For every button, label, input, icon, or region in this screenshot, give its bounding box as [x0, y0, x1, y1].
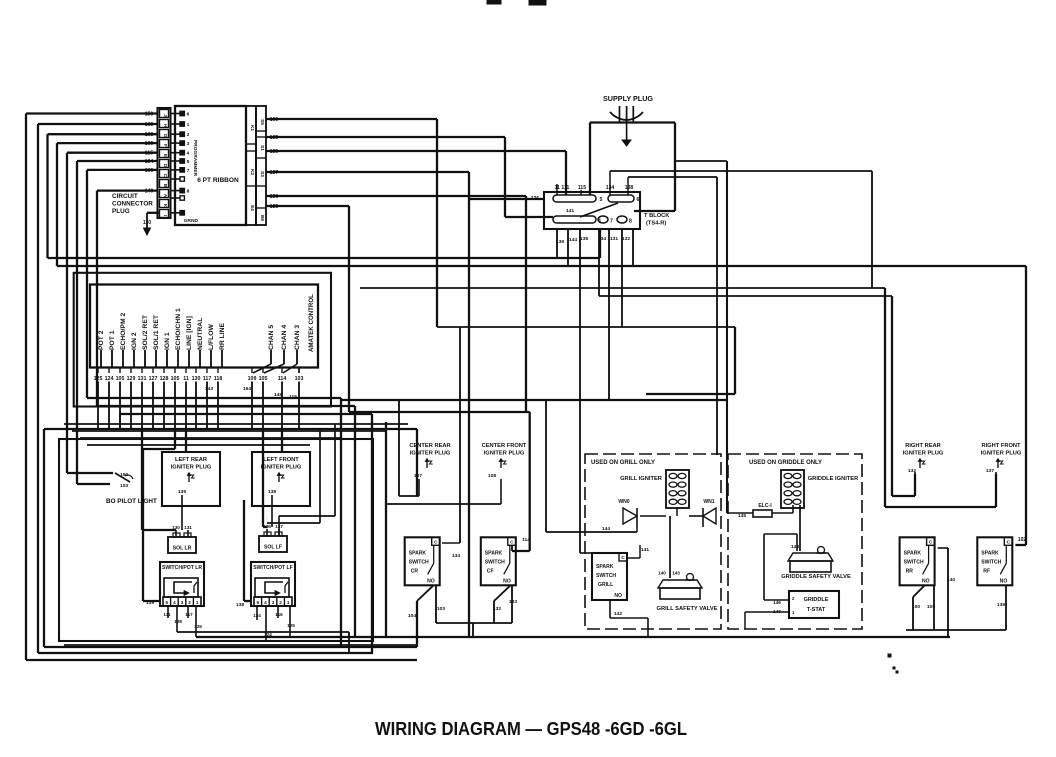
svg-text:115: 115 [145, 151, 153, 157]
svg-text:104: 104 [145, 159, 154, 165]
svg-text:RR LINE: RR LINE [219, 322, 226, 350]
svg-text:103: 103 [120, 483, 128, 489]
svg-text:103: 103 [295, 376, 304, 382]
svg-text:E: E [162, 154, 168, 157]
svg-text:148: 148 [791, 544, 799, 550]
svg-text:C: C [621, 555, 625, 560]
svg-text:T BLOCK: T BLOCK [644, 213, 670, 219]
svg-text:1: 1 [196, 600, 199, 605]
svg-text:IGNITER PLUG: IGNITER PLUG [903, 451, 944, 457]
svg-text:140: 140 [658, 571, 666, 576]
svg-text:C: C [162, 174, 168, 178]
svg-text:129: 129 [127, 376, 136, 382]
svg-text:IGNITER PLUG: IGNITER PLUG [981, 451, 1022, 457]
svg-text:NO: NO [922, 578, 930, 584]
svg-text:5: 5 [257, 600, 260, 605]
svg-text:RR: RR [906, 568, 914, 574]
svg-text:114: 114 [522, 537, 530, 543]
svg-text:CENTER FRONT: CENTER FRONT [482, 443, 527, 449]
svg-text:3: 3 [187, 141, 190, 147]
svg-text:130: 130 [192, 376, 201, 382]
svg-text:C: C [510, 539, 514, 544]
svg-text:ECHO/PM 2: ECHO/PM 2 [120, 313, 127, 350]
svg-text:104: 104 [408, 613, 416, 619]
svg-text:138: 138 [625, 185, 634, 191]
svg-text:C: C [1007, 539, 1011, 544]
svg-text:7: 7 [187, 168, 190, 174]
svg-text:CHAN 3: CHAN 3 [294, 325, 301, 350]
svg-text:4: 4 [187, 151, 190, 157]
svg-text:I: I [162, 215, 168, 216]
svg-text:141: 141 [566, 208, 574, 214]
svg-text:150: 150 [145, 112, 154, 118]
svg-text:NO: NO [1000, 578, 1008, 584]
svg-text:136: 136 [531, 196, 540, 202]
svg-text:6: 6 [187, 112, 190, 118]
svg-text:ECHO/CHN 1: ECHO/CHN 1 [175, 308, 182, 350]
svg-text:141: 141 [641, 547, 649, 553]
svg-text:106: 106 [145, 168, 154, 174]
svg-text:142: 142 [614, 611, 622, 617]
svg-text:B6: B6 [260, 215, 265, 221]
svg-text:RIGHT FRONT: RIGHT FRONT [981, 443, 1021, 449]
svg-text:SPARK: SPARK [596, 564, 614, 570]
svg-text:WIRING DIAGRAM — GPS48 -6GD -6: WIRING DIAGRAM — GPS48 -6GD -6GL [375, 719, 687, 739]
svg-text:CF: CF [487, 568, 494, 574]
svg-text:IGNITER PLUG: IGNITER PLUG [484, 451, 525, 457]
svg-text:GRIDDLE IGNITER: GRIDDLE IGNITER [808, 476, 859, 482]
svg-text:3: 3 [272, 600, 275, 605]
svg-text:D: D [162, 164, 168, 168]
svg-text:5: 5 [600, 197, 603, 203]
svg-text:4: 4 [598, 219, 601, 225]
svg-text:132: 132 [622, 236, 630, 242]
svg-text:CHAN 4: CHAN 4 [281, 325, 288, 350]
svg-text:134: 134 [452, 553, 460, 559]
svg-text:131: 131 [184, 525, 192, 530]
svg-text:NEUTRAL: NEUTRAL [197, 318, 204, 350]
svg-text:145: 145 [738, 513, 746, 519]
svg-text:107: 107 [414, 473, 422, 479]
svg-text:WN1: WN1 [703, 499, 714, 505]
svg-text:114: 114 [278, 376, 287, 382]
svg-text:124: 124 [105, 376, 114, 382]
svg-text:F: F [162, 144, 168, 147]
svg-text:NO: NO [614, 593, 622, 599]
svg-text:K: K [162, 204, 168, 208]
svg-text:138: 138 [580, 236, 588, 242]
svg-text:139: 139 [178, 489, 186, 495]
svg-text:SOL/1 RET: SOL/1 RET [153, 314, 160, 350]
svg-text:AMATEK CONTROL: AMATEK CONTROL [308, 294, 315, 352]
svg-text:116: 116 [275, 612, 283, 617]
svg-text:J: J [162, 114, 168, 117]
svg-text:146: 146 [773, 600, 781, 605]
svg-text:4: 4 [264, 600, 267, 605]
svg-text:SWITCH/POT LF: SWITCH/POT LF [253, 565, 293, 571]
svg-text:139: 139 [146, 600, 154, 606]
svg-text:IGN 1: IGN 1 [164, 332, 171, 350]
svg-text:S1: S1 [260, 145, 265, 151]
svg-text:GRIDDLE: GRIDDLE [804, 597, 829, 603]
svg-text:SWITCH: SWITCH [904, 559, 924, 565]
svg-text:5: 5 [166, 600, 169, 605]
svg-text:109: 109 [145, 141, 154, 147]
svg-text:2: 2 [188, 600, 191, 605]
svg-text:POT 2: POT 2 [98, 330, 105, 350]
svg-text:SWITCH: SWITCH [981, 559, 1001, 565]
svg-text:(TS4-R): (TS4-R) [646, 221, 666, 227]
svg-text:H: H [162, 124, 168, 128]
svg-text:USED ON GRILL ONLY: USED ON GRILL ONLY [591, 460, 655, 466]
svg-text:105: 105 [171, 376, 180, 382]
svg-text:2: 2 [279, 600, 282, 605]
svg-text:GRILL IGNITER: GRILL IGNITER [620, 476, 663, 482]
svg-text:109: 109 [248, 376, 257, 382]
svg-text:117: 117 [185, 612, 193, 617]
svg-text:125: 125 [287, 623, 295, 628]
svg-text:103: 103 [437, 606, 445, 612]
svg-text:B: B [162, 184, 168, 188]
svg-text:111: 111 [163, 612, 171, 617]
svg-text:110: 110 [143, 220, 151, 226]
svg-text:SOL LF: SOL LF [264, 545, 282, 551]
svg-text:7: 7 [610, 219, 613, 225]
svg-text:SPARK: SPARK [981, 550, 999, 556]
svg-text:BO PILOT LIGHT: BO PILOT LIGHT [106, 498, 157, 505]
svg-text:CENTER REAR: CENTER REAR [409, 443, 451, 449]
svg-text:SWITCH: SWITCH [409, 559, 429, 565]
svg-text:A: A [162, 194, 168, 198]
svg-text:134: 134 [598, 236, 606, 242]
svg-text:8: 8 [629, 219, 632, 225]
svg-text:127: 127 [149, 376, 158, 382]
svg-text:11: 11 [183, 376, 189, 382]
svg-text:CIRCUIT: CIRCUIT [112, 193, 138, 200]
svg-text:SWITCH: SWITCH [596, 573, 616, 579]
svg-text:ELC-I: ELC-I [758, 503, 772, 509]
svg-text:143: 143 [672, 571, 680, 576]
svg-text:105: 105 [259, 376, 268, 382]
svg-text:102: 102 [1018, 537, 1027, 543]
svg-text:SPARK: SPARK [904, 550, 922, 556]
svg-text:SUPPLY PLUG: SUPPLY PLUG [603, 94, 653, 103]
svg-text:139: 139 [997, 602, 1005, 608]
svg-text:103: 103 [145, 122, 154, 128]
svg-text:WN0: WN0 [618, 499, 629, 505]
svg-text:SWITCH: SWITCH [485, 559, 505, 565]
svg-text:129: 129 [194, 624, 202, 629]
svg-text:LINE [IGN]: LINE [IGN] [186, 316, 193, 350]
svg-text:PROGRAMMER: PROGRAMMER [192, 140, 198, 177]
svg-text:S3: S3 [260, 171, 265, 177]
svg-text:3: 3 [181, 600, 184, 605]
svg-text:IGNITER PLUG: IGNITER PLUG [171, 465, 212, 471]
svg-text:6 PT RIBBON: 6 PT RIBBON [197, 177, 239, 184]
svg-text:130: 130 [172, 525, 180, 530]
svg-text:GRILL SAFETY VALVE: GRILL SAFETY VALVE [657, 606, 718, 612]
svg-text:131: 131 [610, 236, 618, 242]
svg-text:1: 1 [792, 610, 795, 615]
svg-text:137: 137 [986, 468, 994, 474]
svg-text:115: 115 [289, 394, 297, 400]
svg-text:138: 138 [268, 489, 276, 495]
svg-text:CR: CR [411, 568, 419, 574]
svg-text:NO: NO [427, 578, 435, 584]
svg-text:RIGHT REAR: RIGHT REAR [905, 443, 941, 449]
svg-text:144: 144 [602, 526, 610, 532]
svg-text:1: 1 [187, 122, 190, 128]
svg-text:108: 108 [145, 132, 154, 138]
svg-text:SPARK: SPARK [409, 550, 427, 556]
svg-text:109: 109 [927, 604, 935, 610]
svg-text:K2: K2 [250, 169, 255, 175]
svg-text:CONNECTOR: CONNECTOR [112, 201, 153, 208]
svg-text:IGNITER PLUG: IGNITER PLUG [410, 451, 451, 457]
svg-text:E4: E4 [250, 205, 255, 211]
svg-text:128: 128 [174, 619, 182, 624]
svg-text:IGN 2: IGN 2 [131, 332, 138, 350]
svg-text:G: G [162, 134, 168, 138]
svg-text:C: C [434, 539, 438, 544]
svg-text:SPARK: SPARK [485, 550, 503, 556]
svg-text:2: 2 [187, 132, 190, 138]
svg-text:149: 149 [145, 189, 154, 195]
svg-text:108: 108 [488, 473, 496, 479]
svg-text:IGNITER PLUG: IGNITER PLUG [261, 465, 302, 471]
svg-text:SWITCH/POT LR: SWITCH/POT LR [162, 565, 202, 571]
svg-text:2: 2 [792, 596, 795, 601]
svg-text:T-STAT: T-STAT [807, 607, 826, 613]
svg-text:GRIDDLE SAFETY VALVE: GRIDDLE SAFETY VALVE [781, 574, 851, 580]
svg-text:164: 164 [243, 386, 251, 392]
svg-text:138: 138 [236, 602, 244, 608]
svg-text:147: 147 [773, 609, 781, 614]
svg-text:CHAN 5: CHAN 5 [268, 325, 275, 350]
svg-text:LEFT REAR: LEFT REAR [175, 457, 208, 463]
svg-text:117: 117 [203, 376, 212, 382]
svg-text:105: 105 [116, 376, 125, 382]
svg-text:139: 139 [556, 239, 564, 245]
svg-text:GRILL: GRILL [598, 582, 613, 588]
svg-text:136: 136 [263, 524, 271, 529]
svg-text:L/FLOW: L/FLOW [208, 323, 215, 350]
svg-text:5: 5 [187, 159, 190, 165]
svg-text:C: C [929, 539, 933, 544]
svg-text:S5: S5 [260, 119, 265, 125]
svg-text:USED ON GRIDDLE ONLY: USED ON GRIDDLE ONLY [749, 460, 822, 466]
svg-text:SOL/2 RET: SOL/2 RET [142, 314, 149, 350]
svg-text:1: 1 [287, 600, 290, 605]
svg-text:POT 1: POT 1 [109, 330, 116, 350]
svg-text:125: 125 [94, 376, 103, 382]
svg-text:PLUG: PLUG [112, 208, 130, 215]
svg-text:100: 100 [912, 604, 920, 610]
svg-text:132: 132 [493, 606, 501, 612]
svg-text:144: 144 [569, 237, 577, 243]
svg-text:134: 134 [253, 613, 261, 618]
svg-text:6: 6 [637, 197, 640, 203]
svg-text:115: 115 [578, 185, 586, 191]
svg-text:LEFT FRONT: LEFT FRONT [263, 457, 299, 463]
svg-text:131: 131 [138, 376, 147, 382]
svg-text:SOL LR: SOL LR [173, 546, 192, 552]
svg-text:K1: K1 [250, 125, 255, 131]
svg-text:8: 8 [187, 189, 190, 195]
svg-text:4: 4 [173, 600, 176, 605]
svg-text:128: 128 [160, 376, 169, 382]
svg-text:RF: RF [983, 568, 990, 574]
svg-text:133: 133 [509, 599, 517, 605]
svg-text:NO: NO [503, 578, 511, 584]
svg-text:118: 118 [214, 376, 223, 382]
svg-text:GRND: GRND [184, 218, 199, 224]
svg-text:137: 137 [275, 524, 283, 529]
